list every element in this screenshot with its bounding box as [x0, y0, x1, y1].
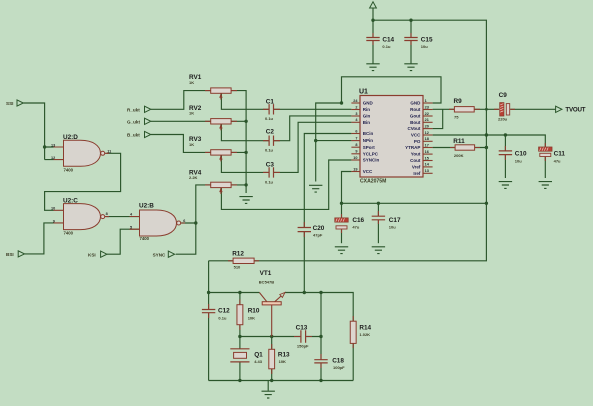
- svg-text:SSI: SSI: [6, 101, 13, 106]
- svg-text:R_ukt: R_ukt: [127, 108, 140, 113]
- capacitor C11 electrolytic: [544, 143, 546, 161]
- svg-text:BSI: BSI: [6, 252, 14, 257]
- wire C9 to TVOUT: [510, 108, 555, 110]
- svg-text:16: 16: [425, 150, 429, 154]
- ground bottom rail: [267, 381, 269, 391]
- resistor R13: [271, 344, 273, 374]
- crystal Q1: [230, 349, 249, 362]
- svg-text:0.1u: 0.1u: [265, 180, 274, 185]
- svg-text:Q1: Q1: [254, 352, 263, 359]
- terminal G_ukt: [145, 118, 151, 124]
- svg-text:Yout: Yout: [411, 152, 421, 157]
- svg-text:VCC: VCC: [411, 133, 421, 138]
- svg-text:7400: 7400: [64, 167, 74, 172]
- resistor RV4 pot: [205, 184, 237, 186]
- resistor R9: [449, 108, 480, 110]
- svg-text:0.1u: 0.1u: [265, 148, 274, 153]
- svg-text:23: 23: [425, 105, 429, 109]
- svg-text:150pF: 150pF: [297, 344, 309, 349]
- svg-text:GND: GND: [363, 101, 374, 106]
- svg-text:7400: 7400: [64, 231, 74, 236]
- capacitor C1: [263, 108, 280, 110]
- wire C14 branch: [372, 20, 374, 63]
- svg-text:47pF: 47pF: [313, 233, 323, 238]
- svg-text:Rout: Rout: [410, 107, 421, 112]
- svg-text:1K: 1K: [189, 142, 194, 147]
- capacitor C16 electrolytic: [341, 214, 343, 233]
- capacitor C10: [504, 146, 506, 160]
- wire C15 branch: [410, 20, 412, 63]
- wire C16 to ground: [341, 230, 343, 244]
- wire chip GND loop: [316, 77, 441, 182]
- terminal R_ukt: [145, 106, 151, 112]
- wire bottom ground rail: [209, 343, 354, 380]
- svg-text:2: 2: [355, 105, 357, 109]
- svg-text:220u: 220u: [498, 117, 508, 122]
- svg-text:4: 4: [355, 118, 358, 122]
- capacitor C12: [208, 304, 210, 318]
- svg-text:47u: 47u: [554, 158, 561, 163]
- wire R9 to C9: [474, 108, 499, 110]
- svg-text:1K: 1K: [189, 111, 194, 116]
- terminal B_ukt: [145, 131, 151, 137]
- svg-text:1.02K: 1.02K: [359, 332, 370, 337]
- resistor R11: [450, 147, 480, 149]
- terminal KSI: [101, 251, 107, 257]
- wire RV2 wiper to C2 to pin3: [221, 116, 351, 141]
- svg-text:G_ukt: G_ukt: [127, 120, 140, 125]
- svg-text:SYNC: SYNC: [153, 252, 166, 257]
- svg-text:GND: GND: [410, 101, 421, 106]
- wire Q1 column: [239, 337, 241, 381]
- svg-text:20: 20: [425, 124, 429, 128]
- svg-text:C20: C20: [313, 225, 325, 232]
- wire RV right commons to ground: [231, 91, 246, 193]
- wire emitter rail: [285, 293, 353, 322]
- op-amp U2:B NAND gate: [130, 217, 186, 230]
- svg-text:C16: C16: [352, 217, 364, 224]
- svg-text:4.43: 4.43: [254, 359, 263, 364]
- svg-text:17: 17: [425, 143, 429, 147]
- wire pin6 BCin to C20: [304, 134, 351, 293]
- svg-text:6: 6: [355, 129, 357, 133]
- svg-text:Iref: Iref: [413, 171, 421, 176]
- svg-text:B_ukt: B_ukt: [127, 133, 140, 138]
- capacitor C18: [320, 354, 322, 368]
- capacitor C15: [410, 33, 412, 45]
- capacitor C2: [263, 140, 280, 142]
- svg-text:U2:C: U2:C: [63, 197, 78, 204]
- svg-text:R14: R14: [359, 325, 371, 332]
- svg-text:10: 10: [353, 156, 357, 160]
- svg-text:0.1u: 0.1u: [382, 44, 391, 49]
- svg-text:CVout: CVout: [407, 126, 420, 131]
- wire VCC pin12 row: [433, 135, 546, 151]
- svg-text:Vref: Vref: [412, 165, 421, 170]
- svg-text:12: 12: [51, 156, 55, 160]
- wire R10 column: [239, 293, 241, 337]
- wire C13/C18 column: [320, 293, 322, 381]
- svg-text:Cout: Cout: [410, 158, 421, 163]
- svg-text:8: 8: [355, 143, 357, 147]
- svg-text:VCC: VCC: [363, 169, 373, 174]
- svg-text:YTRAP: YTRAP: [405, 145, 420, 150]
- svg-text:YCLPC: YCLPC: [363, 151, 379, 156]
- svg-text:R9: R9: [454, 98, 463, 105]
- svg-text:19: 19: [353, 167, 357, 171]
- resistor RV3 pot: [205, 151, 237, 153]
- svg-text:13: 13: [51, 143, 55, 147]
- svg-text:C3: C3: [266, 161, 275, 168]
- svg-text:22: 22: [425, 112, 429, 116]
- wire pin23/pin20 to R9: [433, 109, 455, 128]
- svg-text:Bin: Bin: [363, 120, 371, 125]
- svg-text:C12: C12: [218, 307, 230, 314]
- svg-text:SPort: SPort: [363, 145, 376, 150]
- svg-text:U1: U1: [359, 89, 368, 96]
- svg-text:14: 14: [425, 163, 430, 167]
- wire C17 to ground: [377, 220, 379, 243]
- wire collector rail: [209, 292, 260, 294]
- svg-text:15: 15: [425, 156, 429, 160]
- resistor RV1 pot: [205, 90, 237, 92]
- svg-text:18: 18: [425, 137, 429, 141]
- wire U2:D output loop to U2:C: [45, 153, 121, 210]
- svg-text:SYNCin: SYNCin: [363, 158, 380, 163]
- terminal BSI: [18, 251, 24, 257]
- svg-text:R12: R12: [232, 250, 244, 257]
- resistor R12: [228, 260, 259, 262]
- svg-text:C1: C1: [266, 98, 275, 105]
- svg-text:200K: 200K: [454, 153, 464, 158]
- wire R13 column: [271, 337, 273, 381]
- svg-text:10u: 10u: [389, 225, 396, 230]
- wire VCC pin19 branch: [342, 172, 487, 218]
- svg-text:10u: 10u: [515, 158, 522, 163]
- svg-text:Gin: Gin: [363, 114, 371, 119]
- ground below C14: [366, 64, 379, 71]
- terminal TVOUT: [556, 106, 562, 112]
- capacitor C17: [377, 211, 379, 224]
- svg-text:C2: C2: [266, 128, 275, 135]
- ground below C15: [404, 64, 417, 71]
- svg-text:BCin: BCin: [363, 131, 374, 136]
- svg-text:2.2K: 2.2K: [189, 175, 198, 180]
- wire RV4 wiper to pin10 SYNCin: [221, 160, 351, 209]
- svg-text:12: 12: [425, 131, 429, 135]
- node power junctions: [371, 19, 374, 22]
- svg-text:24: 24: [353, 99, 358, 103]
- wire power rail top: [254, 20, 486, 261]
- svg-text:KSI: KSI: [88, 252, 96, 257]
- svg-text:8: 8: [106, 212, 108, 216]
- wire C11 to ground: [544, 157, 546, 179]
- wire RV1 wiper to C1 to pin2: [221, 94, 351, 110]
- op-amp U1 chip CXA2075M: [360, 96, 423, 178]
- wire C10 to ground: [504, 155, 506, 178]
- svg-text:CXA2075M: CXA2075M: [360, 179, 386, 185]
- capacitor C9 electrolytic: [494, 108, 515, 110]
- svg-text:0.1u: 0.1u: [218, 315, 227, 320]
- wire U2:C out to U2:B pin4: [107, 216, 140, 218]
- wire BSI to U2:C pin9: [25, 223, 54, 254]
- svg-text:C11: C11: [554, 150, 566, 157]
- svg-text:1K: 1K: [189, 80, 194, 85]
- svg-text:6: 6: [183, 219, 185, 223]
- svg-text:C13: C13: [296, 325, 308, 332]
- capacitor C20: [303, 222, 305, 237]
- wire KSI to U2:B pin5: [107, 229, 140, 254]
- svg-text:R10: R10: [248, 307, 260, 314]
- wire pin17 to R11 to rail: [433, 147, 487, 149]
- svg-text:21: 21: [425, 118, 429, 122]
- wire G_ukt to RV2: [151, 120, 211, 122]
- svg-text:13: 13: [425, 169, 429, 173]
- svg-text:R11: R11: [453, 138, 465, 145]
- svg-text:U2:B: U2:B: [139, 203, 154, 210]
- svg-text:47u: 47u: [352, 225, 359, 230]
- svg-text:C14: C14: [382, 36, 394, 43]
- terminal SSI: [17, 100, 23, 106]
- svg-text:10K: 10K: [248, 315, 255, 320]
- svg-text:Gout: Gout: [410, 114, 421, 119]
- resistor R14: [352, 316, 354, 348]
- svg-text:C17: C17: [389, 217, 401, 224]
- op-amp U2:D NAND gate: [54, 147, 110, 160]
- svg-text:9: 9: [53, 219, 55, 223]
- svg-text:10: 10: [51, 207, 55, 211]
- svg-text:75: 75: [454, 115, 459, 120]
- wire SSI net: [23, 103, 53, 160]
- resistor RV2 pot: [205, 120, 237, 122]
- svg-text:7: 7: [355, 136, 357, 140]
- svg-text:PO: PO: [414, 139, 421, 144]
- svg-text:Bout: Bout: [410, 120, 421, 125]
- wire base row: [240, 336, 321, 338]
- svg-text:C10: C10: [515, 150, 527, 157]
- svg-text:U2:D: U2:D: [63, 134, 78, 141]
- ground below RV column: [239, 197, 252, 204]
- resistor R10: [239, 300, 241, 331]
- svg-text:9: 9: [355, 150, 357, 154]
- op-amp U2:C NAND gate: [54, 210, 110, 223]
- terminal SYNC: [168, 251, 174, 257]
- svg-text:7400: 7400: [140, 236, 150, 241]
- wire RV3 wiper to C3 to pin4: [221, 122, 351, 172]
- capacitor C14: [372, 33, 374, 45]
- svg-text:VT1: VT1: [260, 270, 272, 277]
- svg-text:3: 3: [355, 112, 357, 116]
- svg-text:510: 510: [234, 264, 241, 269]
- svg-text:C15: C15: [421, 36, 433, 43]
- svg-text:10K: 10K: [279, 359, 286, 364]
- svg-text:Rin: Rin: [363, 107, 371, 112]
- svg-text:100pF: 100pF: [333, 365, 345, 370]
- wire R_ukt to RV1: [151, 91, 211, 110]
- svg-text:R13: R13: [278, 352, 290, 359]
- svg-text:BC547B: BC547B: [259, 280, 274, 285]
- capacitor C13: [294, 336, 312, 338]
- transistor VT1 BC547B: [259, 293, 281, 302]
- capacitor C3: [263, 171, 280, 173]
- svg-text:TVOUT: TVOUT: [565, 107, 585, 114]
- svg-text:C18: C18: [332, 358, 344, 365]
- svg-text:10u: 10u: [421, 44, 428, 49]
- power symbol +V: [370, 2, 377, 8]
- svg-text:1: 1: [425, 99, 427, 103]
- svg-text:NPin: NPin: [363, 138, 374, 143]
- ground chip GND net: [309, 185, 322, 192]
- svg-text:0.1u: 0.1u: [265, 116, 274, 121]
- wire R12 left to collector rail / C12: [209, 261, 234, 381]
- svg-text:5: 5: [130, 225, 132, 229]
- wire SYNC / U2:B output net: [176, 185, 211, 254]
- svg-text:11: 11: [107, 150, 111, 154]
- svg-text:C9: C9: [499, 92, 508, 99]
- wire B_ukt to RV3: [151, 135, 211, 153]
